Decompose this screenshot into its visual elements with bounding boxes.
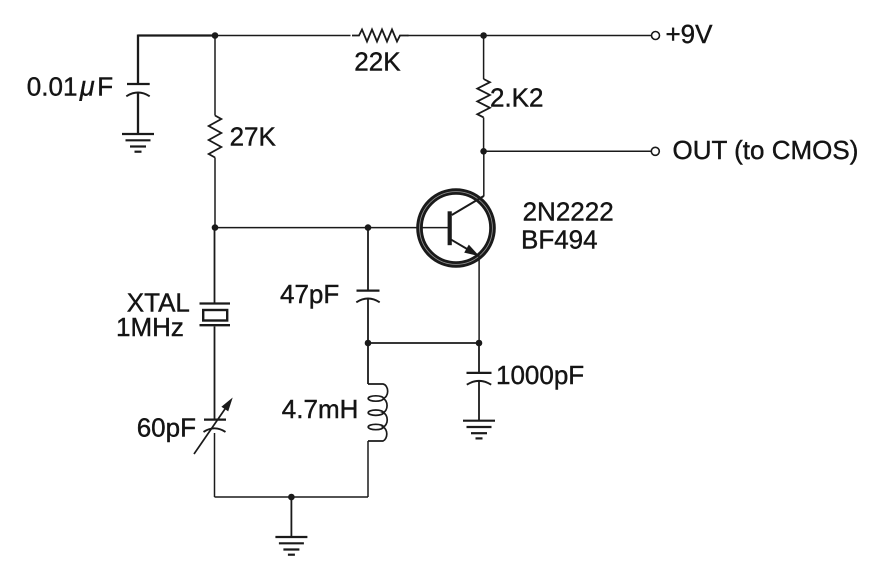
node junction dot mid row right xyxy=(476,340,483,347)
node junction dot bottom rail xyxy=(288,494,295,501)
resistor R 22K (horizontal) xyxy=(352,30,409,42)
wire 47pF to mid node xyxy=(367,299,369,343)
node junction dot top rail / 27K xyxy=(212,32,219,39)
ground (bottom) xyxy=(275,537,307,555)
svg-text:2.K2: 2.K2 xyxy=(490,83,544,113)
wire cap to ground xyxy=(137,93,139,134)
svg-text:2N2222: 2N2222 xyxy=(523,196,614,226)
wire top rail left thick segment xyxy=(138,34,215,36)
resistor R 2.K2 (vertical) xyxy=(477,79,490,117)
wire left branch vertical xyxy=(137,35,139,85)
wire 27K branch upper xyxy=(214,36,216,116)
wire top rail right xyxy=(408,35,652,37)
wire XTAL to 60pF xyxy=(214,327,216,420)
svg-text:OUT (to CMOS): OUT (to CMOS) xyxy=(673,135,859,165)
svg-text:47pF: 47pF xyxy=(280,279,339,309)
wire emitter vertical xyxy=(478,257,480,344)
wire mid row xyxy=(368,342,479,344)
capacitor C 47pF xyxy=(356,291,379,303)
capacitor C 0.01uF xyxy=(126,84,149,96)
wire 47pF branch upper xyxy=(367,228,369,291)
terminal OUT open circle xyxy=(651,147,659,155)
svg-text:22K: 22K xyxy=(354,47,401,77)
terminal +9V open circle xyxy=(652,32,660,40)
svg-text:27K: 27K xyxy=(230,122,277,152)
svg-text:4.7mH: 4.7mH xyxy=(282,394,359,424)
wire XTAL branch upper xyxy=(214,228,216,304)
node junction dot base row / 47pF xyxy=(365,224,372,231)
crystal XTAL 1MHz xyxy=(200,304,231,326)
wire top rail middle xyxy=(215,35,351,37)
wire OUT row xyxy=(484,150,651,152)
ground (under 1000pF) xyxy=(463,421,495,439)
wire 60pF to bottom rail xyxy=(214,433,216,497)
svg-text:1000pF: 1000pF xyxy=(496,360,584,390)
wire inductor branch upper xyxy=(367,343,369,384)
transistor Q1 2N2222/BF494 xyxy=(420,192,493,265)
node junction dot OUT xyxy=(480,148,487,155)
wire 27K to base node xyxy=(214,158,216,229)
wire bottom ground stub xyxy=(290,497,292,537)
wire inductor to bottom rail xyxy=(367,441,369,497)
capacitor C 1000pF xyxy=(467,373,492,385)
wire base row xyxy=(215,227,449,229)
wire collector vertical xyxy=(483,151,485,196)
ground (under 0.01uF) xyxy=(122,134,154,152)
wire 1000pF branch upper xyxy=(478,343,480,373)
variable capacitor C 60pF xyxy=(194,398,233,455)
svg-text:1MHz: 1MHz xyxy=(116,312,184,342)
svg-text:+9V: +9V xyxy=(666,19,714,49)
resistor R 27K (vertical) xyxy=(209,116,222,158)
wire 2K2 to OUT node xyxy=(483,118,485,152)
inductor L 4.7mH xyxy=(368,384,388,441)
wire 2K2 branch top xyxy=(483,36,485,80)
node junction dot mid row left xyxy=(365,340,372,347)
node junction dot top rail / 2K2 xyxy=(480,32,487,39)
node junction dot base row left xyxy=(212,224,219,231)
svg-text:0.01μF: 0.01μF xyxy=(27,71,113,101)
svg-text:60pF: 60pF xyxy=(137,413,196,443)
svg-text:BF494: BF494 xyxy=(521,224,598,254)
wire 1000pF to ground xyxy=(478,382,480,421)
wire bottom rail xyxy=(215,496,369,498)
